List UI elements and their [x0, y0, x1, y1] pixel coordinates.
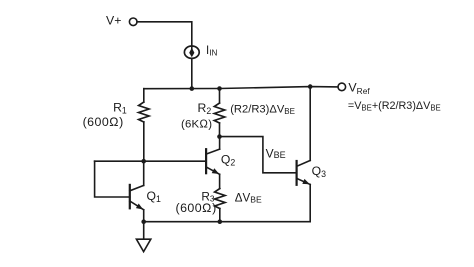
svg-text:(6KΩ): (6KΩ) — [181, 119, 212, 131]
wire to ground symbol — [143, 222, 145, 240]
resistor R2 — [214, 89, 224, 137]
junction R2 / top rail — [217, 86, 222, 91]
svg-text:V+: V+ — [106, 14, 121, 28]
junction R3 / ground rail — [218, 219, 223, 224]
junction R1 / node A — [141, 159, 146, 164]
svg-text:(600Ω): (600Ω) — [83, 115, 124, 129]
current source IIN — [184, 46, 199, 58]
wire V+ terminal to current source — [137, 22, 192, 46]
wire Q3 emitter to ground rail — [309, 185, 311, 222]
terminal V+ — [129, 18, 137, 26]
terminal VRef — [338, 83, 346, 91]
wire top rail — [144, 87, 338, 89]
junction Q3 collector / top rail — [308, 84, 313, 89]
transistor Q1 — [130, 185, 144, 210]
junction IIN / top rail — [190, 86, 195, 91]
wire node A: R1 bottom / Q1 collector / Q2 base — [95, 160, 207, 162]
resistor R3 — [215, 174, 225, 221]
wire Q1 base loop — [95, 161, 130, 197]
wire Q1 emitter to ground rail — [143, 210, 145, 222]
ground — [136, 239, 150, 251]
wire Q2 collector to node B — [219, 137, 221, 150]
transistor Q3 — [297, 160, 311, 184]
wire ground rail — [144, 221, 311, 223]
svg-text:(600Ω): (600Ω) — [176, 201, 217, 215]
wire Q3 collector to top rail — [309, 87, 311, 161]
junction node B: R2 bottom / Q2 collector / Q3 base wire — [217, 134, 222, 139]
junction Q1 emitter / ground rail — [141, 219, 146, 224]
transistor Q2 — [206, 149, 220, 174]
wire Q1 collector to node A — [143, 161, 145, 185]
wire node B to Q3 base — [220, 137, 297, 173]
wire current source to top rail — [191, 59, 193, 89]
resistor R1 — [139, 89, 149, 162]
